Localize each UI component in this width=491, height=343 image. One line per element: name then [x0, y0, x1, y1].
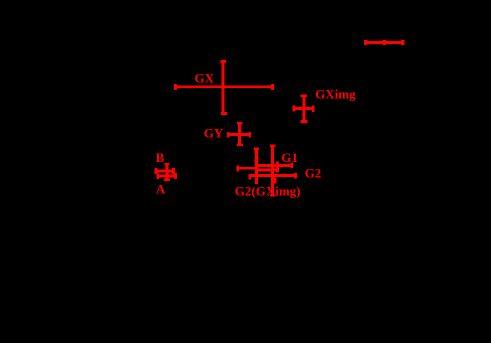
- svg-text:GX: GX: [195, 71, 215, 86]
- svg-text:GXimg: GXimg: [315, 87, 356, 102]
- svg-text:G2: G2: [305, 166, 322, 181]
- svg-text:B: B: [156, 150, 165, 165]
- svg-text:GY: GY: [204, 125, 224, 140]
- svg-text:A: A: [156, 181, 166, 196]
- svg-text:G1: G1: [281, 150, 298, 165]
- svg-text:G2(GXimg): G2(GXimg): [235, 183, 301, 198]
